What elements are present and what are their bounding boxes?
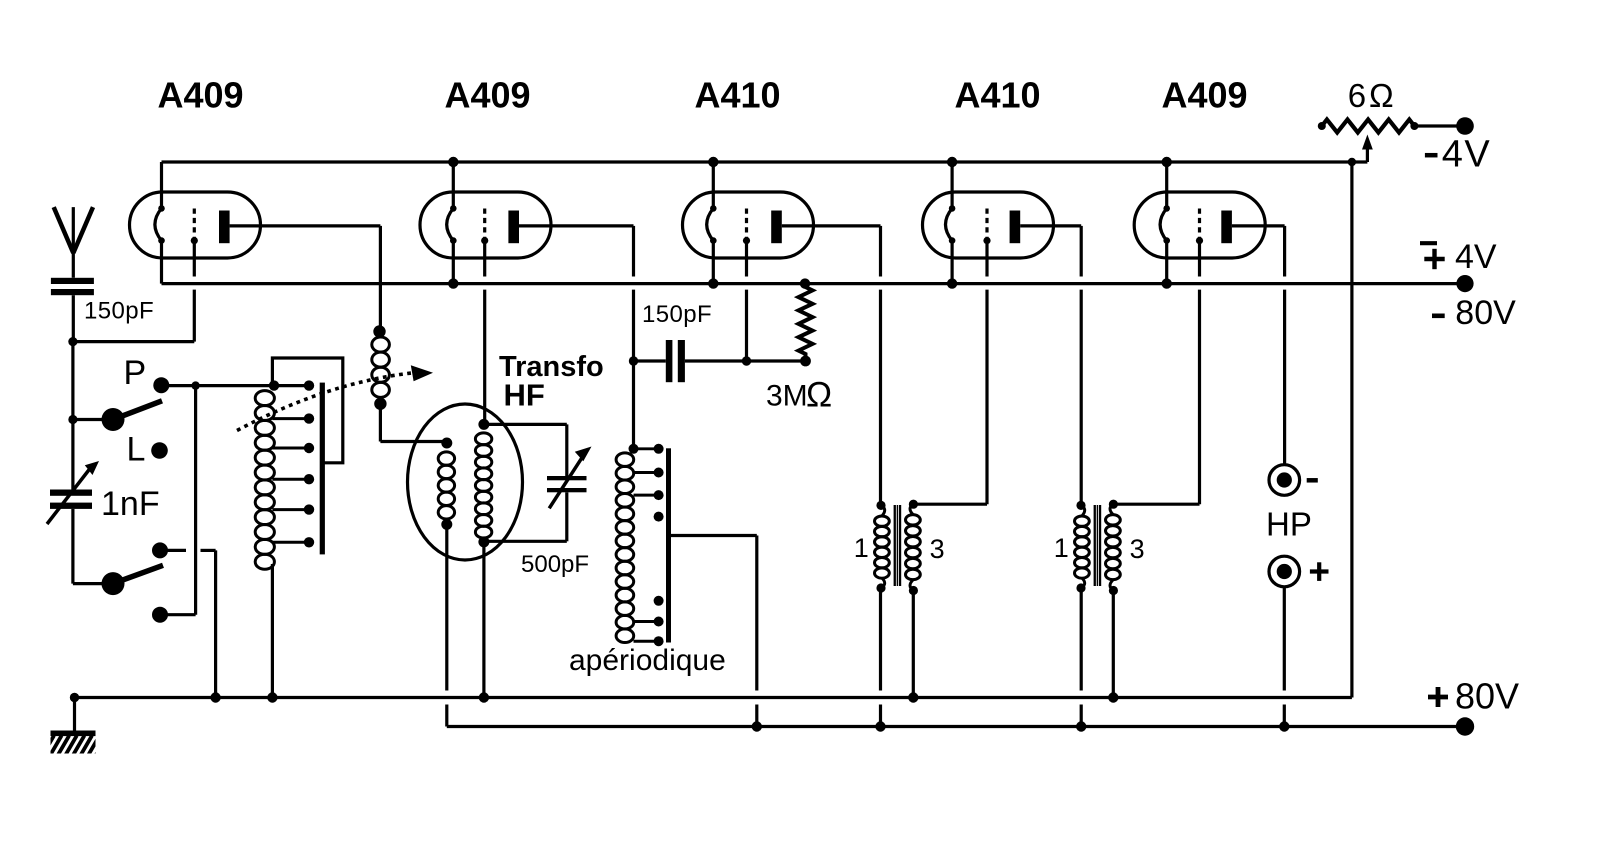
svg-text:1nF: 1nF [101,485,160,523]
svg-text:3: 3 [930,534,945,564]
svg-text:1: 1 [854,533,869,563]
svg-text:4V: 4V [1442,134,1491,176]
svg-text:1: 1 [1054,533,1069,563]
svg-text:Ω: Ω [1369,77,1394,114]
svg-text:150pF: 150pF [642,301,712,328]
svg-text:6: 6 [1348,77,1366,114]
svg-text:A409: A409 [157,75,243,116]
svg-text:Ω: Ω [806,376,832,415]
svg-text:A409: A409 [444,75,530,116]
svg-text:L: L [127,431,146,469]
svg-text:A410: A410 [954,75,1040,116]
svg-text:500pF: 500pF [521,551,589,578]
svg-text:P: P [124,354,147,392]
svg-text:3: 3 [1130,534,1145,564]
svg-text:HF: HF [504,378,545,413]
svg-text:A409: A409 [1161,75,1247,116]
svg-text:A410: A410 [694,75,780,116]
svg-text:apériodique: apériodique [569,644,726,677]
svg-text:3M: 3M [766,380,808,413]
svg-text:80V: 80V [1455,676,1519,717]
svg-text:150pF: 150pF [84,298,154,325]
svg-text:80V: 80V [1455,294,1516,332]
svg-text:HP: HP [1266,506,1312,543]
svg-text:4V: 4V [1455,238,1497,276]
